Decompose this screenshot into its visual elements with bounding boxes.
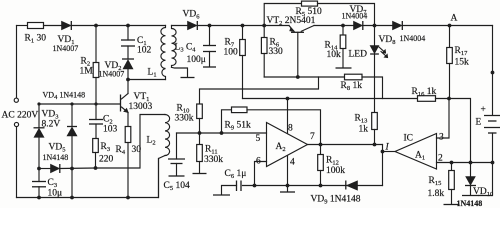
node pin8 supply [286, 97, 290, 101]
diode VD9 [345, 181, 347, 190]
resistor R5 bypass branch [264, 4, 301, 26]
resistor R7 [242, 26, 244, 40]
svg-text:R9 51k: R9 51k [225, 121, 251, 132]
resistor R13 [372, 113, 378, 130]
node rail-C4 [208, 24, 212, 28]
node bus-R2 [94, 102, 97, 105]
resistor R4 [125, 127, 131, 143]
capacitor C3 [38, 169, 40, 182]
ground pin4 [280, 191, 295, 193]
wire output pin7 [308, 144, 383, 146]
resistor R8 [345, 74, 363, 80]
node VD10 top [469, 161, 473, 165]
svg-text:C5 104: C5 104 [164, 181, 190, 192]
transistor VT1 13003 [120, 95, 122, 112]
node collector junction [126, 78, 130, 82]
wire bottom rail [17, 159, 159, 198]
node R4-rail [126, 196, 130, 200]
svg-text:R1 30: R1 30 [25, 34, 47, 45]
svg-text:8.2V: 8.2V [42, 120, 61, 130]
wire [44, 25, 62, 27]
wire L2 bottom to rail [159, 156, 166, 198]
capacitor C2 [95, 104, 97, 120]
svg-text:330k: 330k [175, 114, 194, 124]
node rail-R6 [262, 24, 266, 28]
wire left column [16, 26, 18, 98]
node rail-R2 [94, 24, 98, 28]
node R12 bottom [319, 184, 323, 188]
resistor R2 [95, 26, 97, 63]
AC terminal top [14, 98, 18, 102]
svg-text:103: 103 [103, 125, 118, 135]
resistor R15 [451, 163, 453, 171]
svg-text:15k: 15k [455, 58, 470, 68]
wire left column lower [16, 127, 18, 198]
node VT2 base [296, 75, 300, 79]
node VD4 anode [37, 167, 41, 171]
LED [374, 26, 376, 46]
diode VD4 [39, 168, 51, 170]
svg-text:VD9 1N4148: VD9 1N4148 [311, 195, 361, 206]
ground VD10 [462, 195, 479, 197]
node rail-R7 [241, 24, 245, 28]
capacitor C6 [236, 181, 238, 192]
svg-text:100: 100 [224, 48, 239, 58]
ground R14 [336, 67, 352, 69]
node pin6-C6 [253, 184, 257, 188]
node I (A1 output) [381, 150, 385, 154]
svg-text:+: + [481, 105, 486, 115]
node pin4-net [286, 184, 290, 188]
diode VD7 [354, 21, 363, 30]
svg-text:10k: 10k [327, 50, 342, 60]
svg-text:R16 1k: R16 1k [412, 87, 437, 98]
wire pin4 + ground [287, 156, 289, 191]
svg-text:AC 220V: AC 220V [2, 111, 39, 121]
svg-text:100k: 100k [326, 166, 345, 176]
svg-text:30: 30 [132, 145, 142, 155]
svg-text:1.8k: 1.8k [428, 189, 445, 199]
wire pin6 [255, 162, 267, 186]
svg-text:330: 330 [269, 47, 284, 57]
AC terminal bottom [14, 122, 18, 126]
ground C4 [203, 66, 216, 68]
node R3 bottom [94, 166, 98, 170]
svg-text:A: A [451, 14, 458, 24]
wire pin3 [437, 99, 450, 139]
svg-text:330k: 330k [204, 155, 223, 165]
node A [448, 24, 452, 28]
inductor L1 primary winding [161, 26, 166, 80]
svg-text:1N4004: 1N4004 [400, 34, 426, 43]
svg-text:1k: 1k [359, 125, 369, 135]
ground R11 [193, 173, 207, 175]
node R10 bottom [198, 131, 202, 135]
node right column [491, 71, 495, 75]
node bus-VD3 [37, 102, 40, 105]
op-amp A1 [395, 134, 437, 170]
wire to L1 bottom [128, 79, 166, 81]
svg-text:7: 7 [310, 132, 315, 142]
ground C6 [213, 194, 230, 196]
diode VD2 [122, 58, 134, 60]
wire net pin5 [177, 132, 267, 134]
svg-text:220: 220 [99, 155, 114, 165]
node battery minus [491, 161, 495, 165]
node VD4-VD5 [70, 167, 74, 171]
svg-text:IC: IC [404, 134, 414, 144]
resistor R10 [200, 77, 319, 104]
resistor R11 [199, 133, 201, 145]
wire ground net y185 [243, 185, 383, 187]
wire right column bottom [479, 163, 493, 196]
node R9 left [220, 131, 224, 135]
svg-text:1N4148: 1N4148 [457, 199, 483, 208]
svg-text:13003: 13003 [129, 102, 153, 112]
inductor L2 feedback winding [165, 115, 170, 156]
node out-R13 [373, 143, 377, 147]
wire top rail left [17, 25, 28, 27]
ground L3 [172, 67, 188, 76]
resistor R14 [342, 26, 344, 36]
node C3-rail [37, 196, 41, 200]
ground R15 [444, 204, 460, 206]
capacitor C4 [209, 26, 211, 46]
resistor R3 [93, 139, 99, 153]
wire rail right of VT2 [314, 25, 354, 27]
resistor R12 [320, 145, 322, 155]
wire rail to corner [402, 25, 492, 27]
svg-text:LED: LED [349, 50, 368, 60]
svg-text:1N4007: 1N4007 [99, 70, 125, 79]
wire right edge down [492, 26, 494, 115]
svg-text:5: 5 [256, 134, 261, 144]
svg-text:R8 1k: R8 1k [341, 81, 363, 92]
inductor L3 secondary winding [172, 26, 177, 68]
node rail-C1 [126, 24, 130, 28]
capacitor C1 [127, 26, 129, 41]
svg-text:4: 4 [290, 158, 295, 168]
svg-text:C6 1μ: C6 1μ [225, 169, 247, 180]
wire base bus [39, 103, 120, 105]
node R16-R17-pin3 [447, 97, 451, 101]
wire A1 column [382, 145, 384, 186]
wire pin8 [287, 99, 289, 134]
wire supply net y98 [243, 98, 418, 100]
svg-text:1N4148: 1N4148 [43, 153, 69, 162]
node R15 top [450, 161, 454, 165]
resistor R1 [28, 23, 44, 29]
wire rail VD6 to VT2 [197, 25, 289, 27]
node rail-R14 [341, 24, 345, 28]
ground C5 [169, 175, 185, 177]
diode VD8 [393, 21, 403, 30]
resistor R17 [449, 26, 451, 48]
zener VD10 [470, 163, 472, 177]
zener VD3 [38, 104, 40, 128]
wire base net y76 [264, 76, 344, 78]
resistor R6 [263, 26, 265, 38]
svg-text:VD4 1N4148: VD4 1N4148 [43, 91, 86, 102]
svg-text:10μ: 10μ [48, 189, 63, 199]
svg-text:E: E [476, 118, 482, 128]
svg-text:VT2 2N5401: VT2 2N5401 [267, 16, 316, 27]
capacitor C5 [176, 133, 178, 159]
node bus-VD5 [70, 102, 73, 105]
wire pin2 [437, 162, 493, 164]
resistor R9 feedback [222, 110, 232, 133]
resistor R16 [418, 96, 436, 102]
diode VD5 [71, 104, 73, 127]
svg-text:8: 8 [288, 124, 293, 134]
op-amp A2 [267, 123, 308, 167]
svg-text:102: 102 [137, 46, 152, 56]
svg-text:100μ: 100μ [187, 55, 206, 65]
diode VD6 [188, 21, 198, 30]
node out-R12 [319, 143, 323, 147]
node VD5-rail [70, 196, 74, 200]
wire [71, 25, 165, 27]
diode VD1 [62, 21, 72, 30]
node rail-LED [373, 24, 377, 28]
wire L3 top to VD6 [172, 25, 188, 27]
svg-text:1N4004: 1N4004 [342, 12, 368, 21]
svg-text:1M: 1M [80, 67, 94, 77]
svg-text:1N4007: 1N4007 [53, 44, 79, 53]
